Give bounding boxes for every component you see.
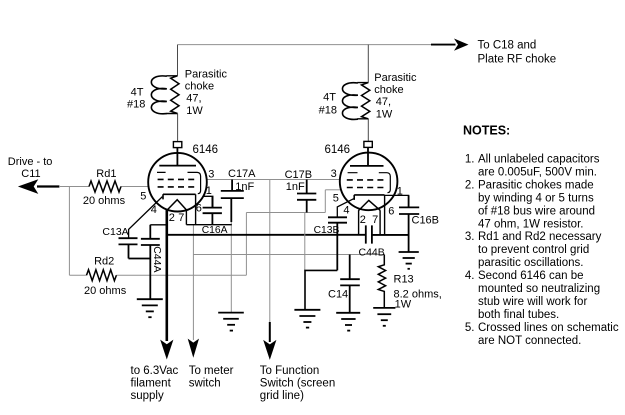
svg-text:4.: 4. bbox=[465, 270, 475, 282]
capacitor C44B bbox=[366, 225, 372, 243]
svg-text:choke: choke bbox=[374, 84, 403, 96]
tube U1 pin1 wire to C16A bbox=[203, 196, 213, 207]
svg-text:1W: 1W bbox=[376, 109, 393, 121]
svg-text:5.: 5. bbox=[465, 322, 475, 334]
svg-text:C13A: C13A bbox=[102, 226, 128, 238]
capacitor C44A bbox=[141, 225, 160, 299]
parasitic choke 2 resistor 47 1W bbox=[362, 83, 370, 119]
svg-text:5: 5 bbox=[140, 191, 146, 203]
wire tube1 pin6 cathode drop bbox=[195, 194, 197, 224]
svg-text:C44A: C44A bbox=[151, 246, 163, 272]
svg-text:to 6.3Vac: to 6.3Vac bbox=[131, 365, 179, 377]
svg-text:C17B: C17B bbox=[285, 169, 313, 181]
tube U1 filament V bbox=[167, 200, 187, 211]
svg-text:grid line): grid line) bbox=[260, 390, 304, 402]
tube U1 cathode bar and tick bbox=[163, 194, 196, 199]
capacitor C17B 1nF bbox=[297, 180, 316, 213]
svg-text:filament: filament bbox=[131, 377, 172, 389]
svg-text:1: 1 bbox=[206, 185, 212, 197]
wire tube2 pin6 cathode drop bbox=[384, 195, 386, 235]
wire filament bus right of C44B bbox=[372, 234, 409, 236]
svg-text:Second 6146 can be: Second 6146 can be bbox=[478, 270, 584, 282]
tube U2 6146 top cap bbox=[364, 141, 372, 147]
tube U2 grid dashed row pin3 bbox=[347, 179, 386, 181]
tube U1 6146 top cap bbox=[173, 142, 181, 148]
svg-text:To meter: To meter bbox=[189, 365, 234, 377]
resistor Rd1 bbox=[89, 181, 121, 192]
wire Rd2 right to tube2 grid net bbox=[116, 274, 246, 276]
node To meter switch arrow bbox=[188, 339, 199, 358]
svg-text:1nF: 1nF bbox=[286, 181, 305, 193]
svg-text:To Function: To Function bbox=[260, 365, 319, 377]
svg-text:to prevent control grid: to prevent control grid bbox=[478, 244, 589, 256]
svg-text:C16B: C16B bbox=[412, 214, 440, 226]
svg-text:NOTES:: NOTES: bbox=[463, 124, 510, 138]
tube U2 pin4 diagonal to C13B bbox=[337, 198, 354, 217]
tube U2 screen segments and bracket to pin1 bbox=[348, 173, 391, 193]
wire to Rd2 left bbox=[69, 274, 86, 276]
tube U2 grid dashed row pin5 bbox=[347, 187, 386, 189]
wire C44A jog to filament line bbox=[150, 224, 167, 226]
svg-text:Plate RF choke: Plate RF choke bbox=[478, 54, 557, 66]
svg-text:2: 2 bbox=[169, 212, 175, 224]
svg-text:switch: switch bbox=[189, 377, 221, 389]
tube U2 pin1 wire to C16B bbox=[385, 195, 409, 207]
svg-text:47 ohm, 1W resistor.: 47 ohm, 1W resistor. bbox=[478, 218, 583, 230]
tube U2 filament V bbox=[359, 200, 381, 210]
ground for C17A cathode net bbox=[218, 313, 244, 331]
resistor Rd2 bbox=[87, 270, 117, 281]
svg-text:are 0.005uF, 500V min.: are 0.005uF, 500V min. bbox=[478, 167, 597, 179]
svg-text:stub wire will work for: stub wire will work for bbox=[478, 296, 587, 308]
parasitic choke 2 inductor 4T #18 bbox=[357, 83, 368, 119]
tube U2 plate bbox=[350, 147, 384, 166]
svg-text:3: 3 bbox=[208, 168, 214, 180]
svg-text:C44B: C44B bbox=[359, 246, 385, 258]
wire drive branch down to Rd2 bbox=[68, 187, 70, 276]
svg-text:7: 7 bbox=[178, 212, 184, 224]
wire tube2 pin7 leg bbox=[379, 210, 381, 235]
wire function switch line bbox=[269, 180, 271, 324]
ground for C44A bbox=[137, 299, 163, 317]
svg-text:2.: 2. bbox=[465, 179, 475, 191]
svg-text:6: 6 bbox=[196, 203, 202, 215]
wire grid net vertical riser bbox=[245, 213, 247, 276]
svg-text:Parasitic: Parasitic bbox=[374, 72, 417, 84]
node To Function Switch arrow bbox=[269, 322, 271, 342]
tube U2 6146 envelope bbox=[340, 153, 398, 211]
svg-text:Parasitic chokes made: Parasitic chokes made bbox=[478, 179, 594, 191]
svg-text:6146: 6146 bbox=[325, 144, 351, 156]
svg-text:both final tubes.: both final tubes. bbox=[478, 309, 559, 321]
svg-text:3: 3 bbox=[331, 168, 337, 180]
notes block bbox=[463, 124, 619, 347]
tube U1 grid dashed row pin5 bbox=[158, 186, 197, 188]
svg-text:1: 1 bbox=[397, 185, 403, 197]
svg-text:20 ohms: 20 ohms bbox=[84, 285, 127, 297]
svg-text:5: 5 bbox=[333, 192, 339, 204]
wire tube1 pin7 leg bbox=[185, 209, 187, 224]
tube U1 plate bbox=[159, 148, 196, 166]
ground for R13 bbox=[373, 308, 395, 326]
wire drop from bus to choke 2 bbox=[367, 45, 369, 83]
svg-text:4T: 4T bbox=[131, 87, 144, 99]
wire meter line bbox=[192, 225, 194, 340]
svg-text:3.: 3. bbox=[465, 231, 475, 243]
svg-text:1W: 1W bbox=[186, 105, 203, 117]
svg-text:Drive - to: Drive - to bbox=[8, 156, 53, 168]
svg-text:C13B: C13B bbox=[314, 225, 340, 236]
svg-text:Switch (screen: Switch (screen bbox=[260, 377, 335, 389]
svg-text:Parasitic: Parasitic bbox=[185, 69, 228, 81]
capacitor C14 bbox=[340, 255, 360, 313]
svg-text:C16A: C16A bbox=[202, 225, 228, 236]
svg-text:C17A: C17A bbox=[228, 168, 256, 180]
svg-text:47,: 47, bbox=[186, 93, 201, 105]
capacitor C13A bbox=[119, 238, 151, 258]
svg-text:47,: 47, bbox=[376, 96, 391, 108]
wire choke2 to tube2 top cap bbox=[367, 119, 369, 142]
svg-text:mounted so neutralizing: mounted so neutralizing bbox=[478, 283, 600, 295]
wire choke1 to tube1 top cap bbox=[177, 114, 179, 142]
svg-text:parasitic oscillations.: parasitic oscillations. bbox=[478, 257, 583, 269]
svg-text:6146: 6146 bbox=[193, 144, 219, 156]
wire C13B ground path bbox=[305, 270, 337, 309]
wire grid net up to tube2 pin5 bbox=[324, 190, 326, 213]
wire tube2 pin5 stub bbox=[325, 189, 340, 191]
wire grid-line branch vertical near C17B bbox=[304, 213, 306, 271]
svg-text:4: 4 bbox=[343, 205, 349, 217]
wire Rd1 to tube1 pin5 bbox=[121, 186, 149, 188]
svg-text:C14: C14 bbox=[328, 288, 348, 300]
svg-text:choke: choke bbox=[185, 80, 214, 92]
parasitic choke 1 resistor 47 1W bbox=[171, 76, 179, 114]
svg-text:Rd1: Rd1 bbox=[96, 168, 116, 180]
capacitor C17A 1nF bbox=[221, 180, 244, 223]
svg-text:by winding 4 or 5 turns: by winding 4 or 5 turns bbox=[478, 192, 594, 204]
wire screen line pin3 tube1 to tube2 bbox=[207, 179, 340, 181]
svg-text:1nF: 1nF bbox=[235, 181, 254, 193]
svg-text:7: 7 bbox=[372, 214, 378, 226]
wire drop from bus to choke 1 bbox=[177, 45, 179, 76]
ground for C16B bbox=[399, 252, 419, 269]
wire filament bus left of C44B bbox=[167, 234, 366, 236]
tube U1 pin4 diagonal to C13A bbox=[129, 197, 163, 239]
svg-text:#18: #18 bbox=[127, 98, 145, 110]
node To C18 arrow bbox=[431, 44, 456, 46]
svg-text:#18: #18 bbox=[319, 105, 337, 117]
wire ground riser C17A bbox=[230, 222, 232, 313]
capacitor C13B bbox=[328, 217, 347, 270]
tube U2 cathode bar and tick bbox=[354, 195, 384, 200]
node to 6.3Vac filament arrow bbox=[160, 340, 173, 360]
svg-text:2: 2 bbox=[360, 214, 366, 226]
svg-text:All unlabeled capacitors: All unlabeled capacitors bbox=[478, 154, 600, 166]
wire tube2 pin2 leg bbox=[358, 210, 360, 235]
node Drive-to-C11 arrow bbox=[37, 185, 59, 187]
ground for C13B bbox=[294, 310, 320, 328]
wire drive line to Rd1 bbox=[59, 186, 89, 188]
svg-text:supply: supply bbox=[131, 390, 164, 402]
svg-text:of #18 bus wire around: of #18 bus wire around bbox=[478, 205, 595, 217]
svg-text:Crossed lines on schematic: Crossed lines on schematic bbox=[478, 322, 619, 334]
wire tube1 cathode jog bbox=[186, 224, 231, 226]
svg-text:1.: 1. bbox=[465, 154, 475, 166]
svg-text:Rd2: Rd2 bbox=[94, 256, 114, 268]
capacitor C16B bbox=[399, 195, 419, 252]
svg-text:are NOT connected.: are NOT connected. bbox=[478, 335, 581, 347]
parasitic choke 1 inductor 4T #18 bbox=[167, 76, 178, 114]
svg-text:6: 6 bbox=[388, 206, 394, 218]
capacitor C16A bbox=[203, 196, 222, 224]
svg-text:To C18 and: To C18 and bbox=[478, 40, 537, 52]
svg-text:C11: C11 bbox=[21, 168, 40, 180]
tube U1 6146 envelope bbox=[148, 153, 207, 212]
ground for C14 bbox=[336, 313, 360, 331]
svg-text:1W: 1W bbox=[395, 299, 412, 311]
svg-text:R13: R13 bbox=[394, 273, 414, 285]
tube U1 grid dashed row pin3 bbox=[158, 178, 197, 180]
svg-text:4: 4 bbox=[151, 204, 157, 216]
wire R13 C14 meter branch bbox=[193, 254, 384, 256]
resistor R13 8.2 ohms 1W bbox=[378, 255, 385, 308]
svg-text:4T: 4T bbox=[323, 92, 336, 104]
tube U1 screen segments and bracket to pin1 bbox=[157, 172, 201, 193]
wire tube1 filament supply line bbox=[166, 210, 169, 341]
svg-text:20 ohms: 20 ohms bbox=[83, 195, 126, 207]
svg-text:Rd1 and Rd2 necessary: Rd1 and Rd2 necessary bbox=[478, 231, 602, 243]
wire top plate bus bbox=[178, 44, 432, 46]
wire grid net horizontal bbox=[246, 212, 325, 214]
